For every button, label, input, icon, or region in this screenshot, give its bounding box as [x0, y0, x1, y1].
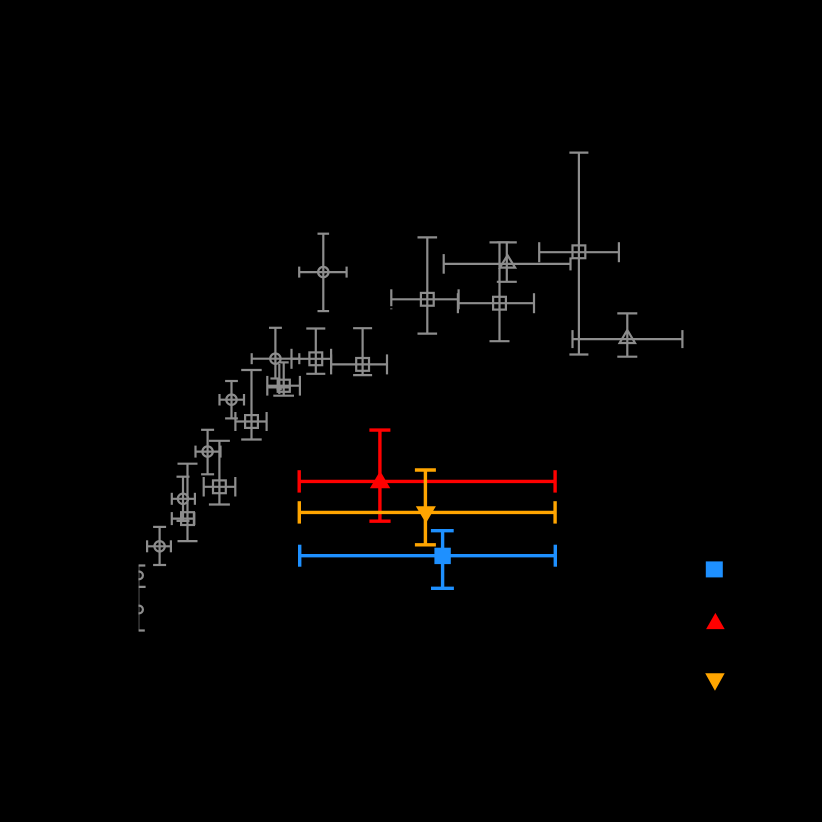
gray point C6 circle (231.5,399.7) — [220, 381, 245, 418]
gray point SQ16 square (578.9,251.8) — [539, 153, 619, 355]
gray point C4 circle (207.6,451.6) — [196, 430, 221, 475]
orange errorbar point: triangle down (425.9,512.4) — [299, 470, 555, 545]
gray point SQ13 square (427.3,299.3) — [391, 237, 458, 333]
red errorbar point: triangle up (380.1,481.4) — [299, 430, 555, 521]
gray point P4 square (187.5,518.6) — [172, 464, 198, 541]
gray point TR17 triangle (627.3,338.8) — [573, 313, 683, 356]
legend marker: orange triangle down — [705, 673, 725, 691]
gray point C12 circle (323.3,272.1) — [299, 234, 346, 311]
gray point SQ14 square (499.5,303.2) — [458, 242, 534, 341]
gray point TR15 triangle (507.5,261.8) — [444, 242, 571, 281]
gray point SQ10 square (315.8,358.8) — [292, 329, 332, 374]
gray point SQ7 square (251.5,421.5) — [235, 370, 266, 440]
gray point SQ11 square (362.6,364.4) — [331, 328, 387, 375]
clipped markers at left plot edge — [135, 565, 146, 630]
gray point C8 circle (275.4,358.7) — [252, 328, 300, 379]
gray point SQ9b square (283.7,385.7) — [267, 362, 300, 395]
gray point SQ5 square (219.4,486.8) — [204, 441, 236, 505]
legend marker: red triangle up — [706, 613, 725, 629]
legend marker: blue square — [706, 561, 723, 577]
blue errorbar point: square (442.6,555.9) — [300, 531, 556, 589]
gray point C1 circle (159.6,546.3) — [147, 527, 171, 565]
gray point P3 circle (183.0,498.8) — [172, 477, 195, 521]
gray point SQ9a square (279.3,388.2) — [268, 364, 290, 394]
black gap artifact on SQ13 left cap — [390, 306, 393, 308]
